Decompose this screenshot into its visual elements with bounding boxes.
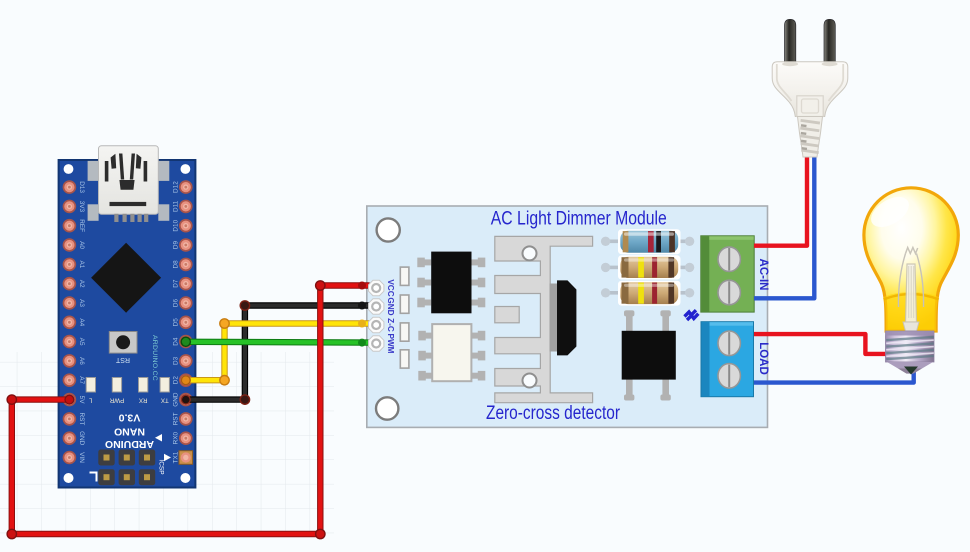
svg-text:ARDUINO: ARDUINO [105, 438, 154, 450]
left pin labels [78, 181, 85, 463]
svg-text:D13: D13 [78, 181, 85, 193]
grid area lower-left [0, 352, 334, 537]
wire blue AC mains plug to AC-IN [754, 157, 814, 299]
pin D3 [179, 354, 193, 368]
plug pin left [785, 19, 796, 63]
module header pin VCC [369, 280, 384, 295]
optocoupler U3 body [431, 252, 471, 314]
pin A1 [63, 258, 77, 272]
module header pin PWM [369, 336, 384, 351]
LED TX [160, 378, 169, 393]
pin D4 [179, 335, 193, 349]
svg-text:AC Light Dimmer Module: AC Light Dimmer Module [491, 208, 667, 229]
bulb glass [864, 188, 958, 331]
bridge rectifier D1 body [622, 331, 676, 380]
svg-text:D7: D7 [173, 279, 180, 288]
bendpoint red 4 [316, 281, 325, 290]
triac Q1 tab [550, 284, 558, 352]
base cone [887, 362, 933, 369]
svg-text:RST: RST [115, 356, 130, 363]
pin 3V3 [63, 200, 77, 214]
LED PWR [112, 378, 121, 393]
svg-text:VCC: VCC [386, 279, 395, 296]
pin D9 [179, 238, 193, 252]
bulb neck deep yellow [884, 292, 939, 331]
pin 5V [63, 393, 77, 407]
optocoupler U3 pins [417, 258, 485, 308]
svg-text:TX1: TX1 [173, 451, 180, 463]
svg-text:TX: TX [161, 396, 169, 403]
smd resistor r1 [400, 267, 409, 285]
bridge rectifier D1 legs [624, 310, 671, 400]
optocoupler U4 body white [432, 324, 471, 381]
end dot yellow module side [358, 320, 366, 328]
svg-text:V3.0: V3.0 [119, 411, 141, 423]
LED RX [139, 378, 148, 393]
heatsink hole top [523, 246, 537, 260]
usb tabs [88, 161, 170, 221]
svg-text:D9: D9 [173, 240, 180, 249]
svg-text:ARDUINO.CC: ARDUINO.CC [151, 335, 158, 381]
svg-text:D3: D3 [173, 356, 180, 365]
svg-text:Zero-cross detector: Zero-cross detector [486, 403, 621, 424]
plug body shading [777, 64, 792, 101]
end dot green module side [358, 339, 366, 347]
module header pin GND [369, 299, 384, 314]
svg-text:A2: A2 [78, 280, 85, 288]
Arduino Nano board U1 [59, 160, 196, 488]
svg-text:A0: A0 [78, 241, 85, 249]
glass highlight [866, 191, 914, 234]
silk L bracket [90, 473, 97, 482]
resistor R3 leads [601, 288, 694, 297]
module mounting hole top-left [377, 218, 400, 241]
ICSP header [98, 450, 155, 486]
pin D5 [179, 316, 193, 330]
svg-text:D8: D8 [173, 260, 180, 269]
end dot black module side [358, 302, 366, 310]
svg-text:D10: D10 [173, 219, 180, 231]
svg-text:A4: A4 [78, 318, 85, 326]
pin D12 [179, 180, 193, 194]
pin REF [63, 219, 77, 233]
resistor R2 leads [601, 263, 694, 272]
filament stem [906, 264, 917, 322]
right pin labels [173, 181, 180, 464]
junction yellow D2 pin [181, 376, 190, 385]
heatsink hole bottom [523, 374, 537, 388]
svg-text:LOAD: LOAD [757, 342, 769, 375]
light bulb LP1 [864, 188, 958, 375]
smd resistor r4 [400, 350, 409, 368]
svg-text:VIN: VIN [78, 452, 85, 463]
junction black GND pin [181, 395, 190, 404]
left pin column [63, 180, 77, 464]
microcontroller chip diamond [91, 243, 161, 313]
triac Q1 body [557, 280, 576, 355]
svg-text:PWR: PWR [109, 396, 124, 403]
filament support wires [898, 254, 905, 308]
pin RST left [63, 412, 77, 426]
wire green D4 to module PWM [186, 340, 369, 345]
right pin column [179, 180, 193, 464]
pin RST right [179, 412, 193, 426]
wire red AC mains plug to AC-IN [754, 157, 807, 246]
svg-text:RX: RX [139, 396, 148, 403]
wire red 5V to module VCC [12, 286, 369, 535]
pin D10 [179, 219, 193, 233]
base tip contact [904, 367, 918, 375]
svg-text:A7: A7 [78, 376, 85, 384]
bendpoint red 3 [316, 529, 325, 538]
junction red 5V pin [65, 395, 74, 404]
wire blue LOAD to bulb [754, 371, 914, 383]
end dot red module side [358, 282, 366, 290]
svg-text:GND: GND [173, 392, 180, 407]
junction green D4 pin [181, 337, 190, 346]
pin D8 [179, 258, 193, 272]
pin A2 [63, 277, 77, 291]
lightning bolt icon [685, 310, 699, 320]
svg-text:D12: D12 [173, 181, 180, 193]
pin A0 [63, 238, 77, 252]
wire black GND to module GND [186, 306, 369, 400]
ARDUINO NANO V3.0 silk [105, 411, 154, 450]
svg-text:REF: REF [78, 219, 85, 232]
LED labels [89, 396, 169, 403]
wire black GND to module GND outline [186, 306, 369, 400]
AC plug P1 [772, 19, 848, 157]
silk triangle RX0 [155, 434, 162, 442]
plug pin right [824, 19, 835, 63]
wire yellow D2 to module Z-C outline [186, 324, 369, 381]
svg-text:D6: D6 [173, 298, 180, 307]
module mounting hole bottom-left [376, 397, 398, 419]
resistor R1 leads [601, 237, 694, 246]
svg-text:5V: 5V [78, 396, 85, 405]
wire red 5V to module VCC outline [12, 286, 369, 535]
pin D2 [179, 373, 193, 387]
LED L [86, 378, 95, 393]
svg-text:D5: D5 [173, 318, 180, 327]
pin A6 [63, 354, 77, 368]
silk triangle TX1 [164, 454, 171, 462]
svg-text:3V3: 3V3 [78, 201, 85, 213]
svg-text:D2: D2 [173, 376, 180, 385]
svg-text:AC-IN: AC-IN [757, 259, 769, 291]
svg-text:RX0: RX0 [173, 432, 180, 445]
plug neck boss [797, 96, 823, 117]
svg-text:GND: GND [386, 297, 395, 315]
pin RX0 [179, 431, 193, 445]
terminal block AC-IN green [701, 236, 754, 312]
pin GND left [63, 431, 77, 445]
resistor R3 tan body [618, 281, 681, 306]
pin A3 [63, 296, 77, 310]
pin A7 [63, 373, 77, 387]
smd resistor r3 [400, 323, 409, 341]
terminal block LOAD blue [701, 322, 754, 397]
filament coil [906, 248, 918, 254]
svg-text:GND: GND [78, 431, 85, 446]
plug pin base shadows [782, 62, 798, 66]
pin D7 [179, 277, 193, 291]
svg-text:L: L [89, 396, 93, 403]
wire yellow D2 to module Z-C [186, 324, 369, 381]
bulb screw base [886, 331, 935, 375]
svg-text:D11: D11 [173, 200, 180, 212]
plug body [772, 62, 848, 117]
wire green D4 to module PWM outline [186, 339, 369, 346]
bendpoint yellow 2 [220, 376, 229, 385]
svg-text:A3: A3 [78, 299, 85, 307]
AC light dimmer module board U2 [367, 206, 768, 427]
svg-text:A6: A6 [78, 357, 85, 365]
svg-text:NANO: NANO [114, 425, 145, 437]
pin D11 [179, 200, 193, 214]
bendpoint yellow 1 [220, 319, 229, 328]
reset button RST [109, 332, 137, 354]
svg-text:A1: A1 [78, 260, 85, 268]
pin A5 [63, 335, 77, 349]
pin A4 [63, 316, 77, 330]
svg-text:Z-C: Z-C [386, 318, 395, 332]
svg-text:RST: RST [78, 413, 85, 426]
svg-text:RST: RST [173, 412, 180, 425]
pin D13 [63, 180, 77, 194]
resistor R2 tan body [618, 255, 681, 279]
smd resistor r2 [400, 295, 409, 313]
pin TX1 square [179, 451, 193, 465]
mounting holes [64, 164, 191, 483]
module header pin Z-C [369, 317, 384, 332]
bendpoint red 1 [7, 395, 16, 404]
pin VIN [63, 451, 77, 465]
resistor R1 blue body [618, 229, 681, 254]
optocoupler U4 pins [418, 331, 485, 381]
bendpoint red 2 [7, 529, 16, 538]
usb connector J1 [99, 146, 159, 222]
svg-text:A5: A5 [78, 338, 85, 346]
heatsink [495, 236, 593, 402]
heatsink short fin [495, 307, 519, 323]
plug strain relief [798, 117, 823, 158]
svg-text:ICSP: ICSP [157, 459, 164, 474]
svg-text:PWM: PWM [386, 333, 395, 353]
wire red LOAD to bulb [754, 334, 888, 354]
pin D6 [179, 296, 193, 310]
svg-text:D4: D4 [173, 337, 180, 346]
bendpoint black 1 [240, 301, 249, 310]
pin GND right [179, 393, 193, 407]
bendpoint black 2 [240, 395, 249, 404]
